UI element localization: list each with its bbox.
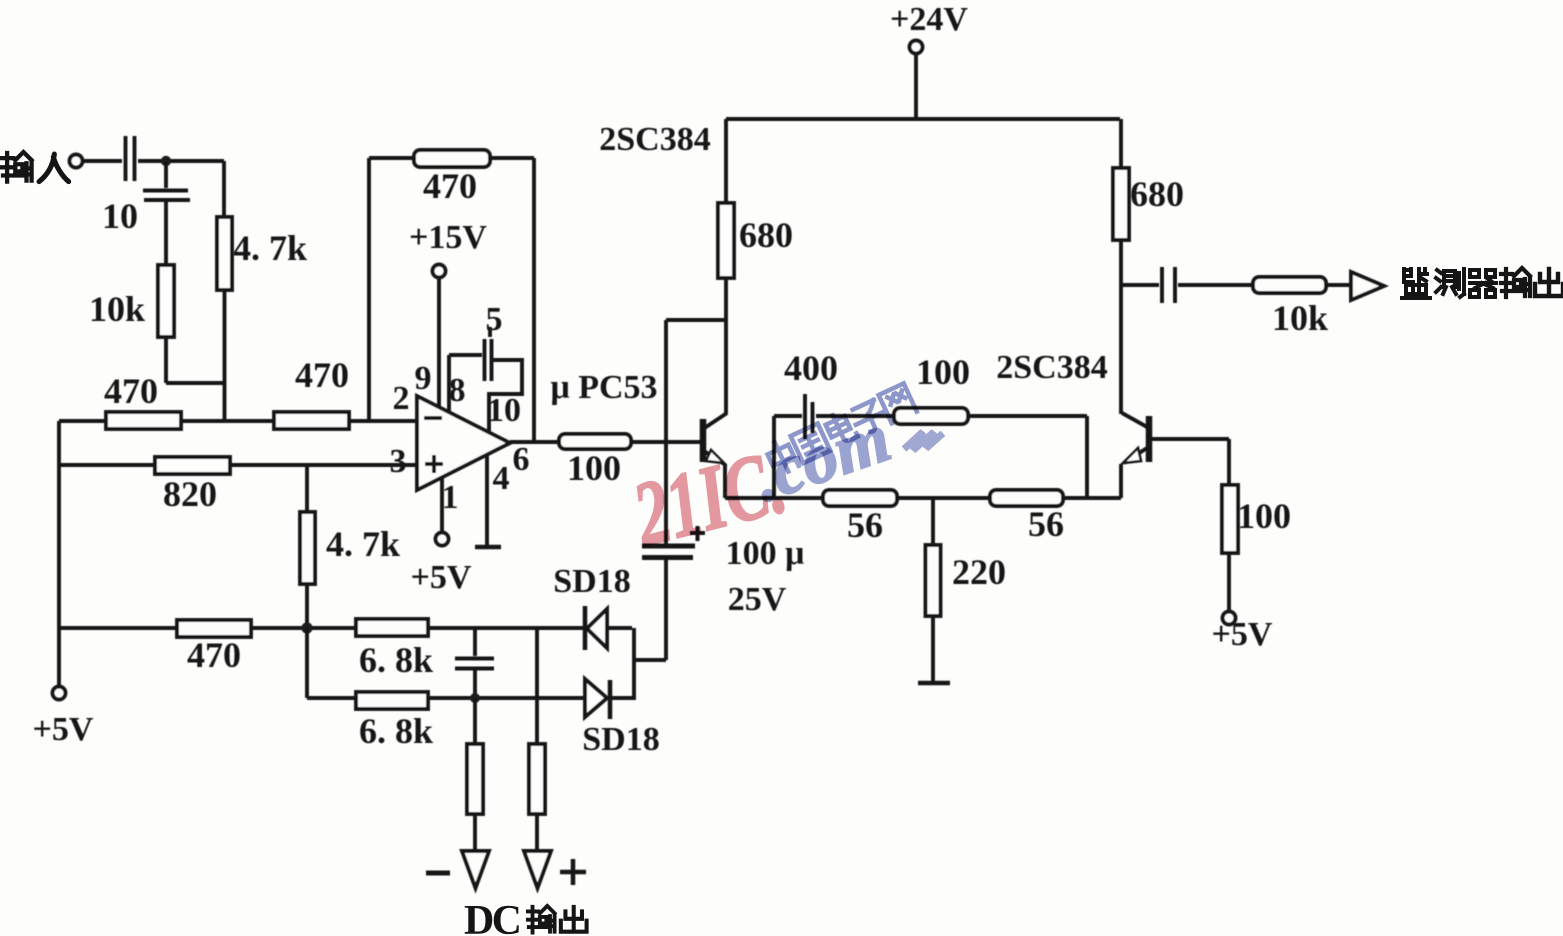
pin 10 wire [489, 360, 522, 431]
bias upper wire [774, 416, 802, 498]
svg-text:6. 8k: 6. 8k [359, 640, 433, 680]
svg-text:4: 4 [493, 460, 510, 497]
wire upper diode to node [607, 626, 632, 630]
wire cap to 10k [1178, 283, 1253, 287]
wire +24V stem [914, 54, 918, 119]
resistor 470 (feedback, top) [369, 156, 534, 160]
svg-text:10: 10 [487, 392, 521, 429]
svg-text:25V: 25V [728, 581, 787, 618]
wire 10k to arrow [1326, 283, 1351, 287]
svg-text:400: 400 [784, 348, 838, 388]
transistor Q1 2SC384 base bar [700, 419, 707, 462]
wire 100u to diode node [634, 560, 666, 700]
resistor 10k (output) [1253, 277, 1326, 293]
wire inverting bus (pin 2 line) [59, 419, 417, 423]
Q2 collector wire up [1119, 240, 1123, 414]
resistor 56 (left) [823, 490, 897, 506]
svg-text:2SC384: 2SC384 [599, 121, 710, 158]
wire node A down to capacitor 10 [164, 161, 168, 188]
wire pin3 bus down to 4.7k #2 [305, 465, 309, 512]
diode SD18 upper triangle [587, 609, 607, 648]
Q1 emitter arrowhead [706, 450, 724, 463]
svg-text:100: 100 [567, 448, 621, 488]
+24V terminal [910, 41, 923, 54]
wire non-inverting bus (pin 3 line) [59, 463, 417, 467]
diode SD18 lower (cathode bar) [608, 680, 613, 719]
watermark 中国电子网 blue [764, 382, 917, 476]
pin 1 wire [440, 477, 444, 532]
resistor 100 (op-amp output) [559, 434, 631, 449]
svg-text:2SC384: 2SC384 [996, 349, 1107, 386]
svg-text:μ PC53: μ PC53 [550, 369, 657, 406]
lower reference wire [307, 696, 585, 700]
wire DC+ branch (from top wire crossing) [535, 628, 539, 744]
feedback loop: right drop wire to output [532, 158, 536, 442]
svg-text:10: 10 [102, 196, 138, 236]
wire lower diode to node [612, 696, 634, 700]
svg-text:+24V: +24V [890, 1, 968, 38]
svg-text:820: 820 [163, 474, 217, 514]
svg-text:DC: DC [464, 898, 522, 936]
svg-text:680: 680 [1130, 174, 1184, 214]
Q1 emitter wire down [725, 464, 774, 498]
wire +15V to op-amp top (pin 9) [437, 278, 441, 406]
capacitor 400 [805, 394, 813, 439]
+5V terminal pin1 [436, 533, 449, 546]
+5V terminal bottom left [53, 687, 66, 700]
resistor 470 (bottom) [177, 620, 251, 637]
op-amp U1 uPC53 triangle [417, 396, 510, 490]
label 输入 input [2, 152, 69, 182]
plus sign of 100u [690, 526, 705, 541]
capacitor C-in (series input cap) [126, 136, 135, 181]
bias lower wire [725, 496, 1121, 500]
pin 4 wire [485, 455, 489, 546]
wire 100 to Q1 base [631, 440, 701, 444]
wire input to C-in [83, 159, 122, 163]
wire cap 10 to resistor 10k [164, 202, 168, 265]
resistor 10k [158, 265, 174, 337]
svg-text:2: 2 [393, 380, 410, 417]
wire 400 to 100 [816, 414, 894, 418]
junction dot lower wire [470, 693, 480, 703]
Q2 emitter arrowhead [1123, 448, 1141, 463]
svg-text:4. 7k: 4. 7k [326, 524, 400, 564]
resistor 4.7k (input divider) [217, 217, 232, 290]
svg-text:+5V: +5V [411, 559, 472, 596]
svg-text:+15V: +15V [409, 219, 487, 256]
wire DC- branch [473, 698, 477, 744]
svg-text:8: 8 [449, 372, 466, 409]
svg-text:SD18: SD18 [582, 721, 659, 758]
wire 4.7k #2 to node B [305, 584, 309, 628]
svg-text:SD18: SD18 [553, 563, 630, 600]
wire op-amp output [510, 440, 559, 444]
wire resistor to arrow [535, 814, 539, 851]
Q2 base wire [1152, 439, 1229, 485]
+15V terminal [433, 265, 446, 278]
ground 220 [918, 681, 950, 686]
capacitor C5 (pins 8-10) [485, 339, 492, 381]
svg-text:470: 470 [295, 355, 349, 395]
ground pin 4 [475, 545, 501, 550]
arrow DC- [462, 851, 489, 888]
watermark 21IC. red [624, 431, 795, 566]
resistor 820 [155, 457, 230, 474]
bottom reference wire [59, 626, 583, 630]
svg-text:100: 100 [916, 352, 970, 392]
collector tap to coupling cap [666, 320, 726, 544]
svg-text:6: 6 [513, 441, 530, 478]
capacitor 100u 25V electrolytic [642, 544, 695, 549]
+5V terminal right [1223, 612, 1236, 625]
svg-text:6. 8k: 6. 8k [359, 711, 433, 751]
resistor 100 (Q2 base) [1222, 485, 1238, 553]
input terminal 输入 [70, 155, 83, 168]
svg-text:56: 56 [847, 505, 883, 545]
svg-text:+5V: +5V [1212, 616, 1273, 653]
+24V rail [726, 117, 1120, 121]
node A junction dot [161, 156, 171, 166]
resistor 680 (Q2 collector) [1113, 168, 1129, 240]
transistor Q2 2SC384 base bar [1146, 416, 1153, 462]
arrow monitor output [1351, 272, 1384, 300]
feedback loop: left drop wire [367, 158, 371, 421]
resistor 4.7k (to reference node) [300, 512, 315, 584]
Q2 collector lead [1122, 413, 1147, 427]
label 监测器输出 monitor output [1402, 268, 1563, 298]
pin 8 wire [449, 355, 482, 412]
output node wire [1120, 283, 1159, 287]
diode SD18 lower triangle [585, 679, 607, 717]
arrow DC+ [524, 851, 551, 888]
svg-text:470: 470 [104, 371, 158, 411]
capacitor 10 [143, 191, 190, 201]
wire node A right then down to 4.7k [222, 161, 226, 217]
resistor 470 (left on pin2 bus) [106, 412, 181, 429]
svg-text:470: 470 [423, 166, 477, 206]
Q1 collector wire up [724, 278, 728, 414]
svg-text:100: 100 [1237, 496, 1291, 536]
svg-text:56: 56 [1028, 504, 1064, 544]
watermark .com blue [744, 399, 944, 517]
wire resistor to arrow [473, 814, 477, 851]
Q1 emitter lead [704, 451, 724, 464]
resistor 6.8k (bottom) [356, 692, 428, 709]
resistor 470 (right on pin2 bus) [274, 412, 349, 429]
pin 5 stub [488, 327, 492, 337]
wire 220 branch [931, 498, 935, 545]
op-amp plus sign [425, 455, 443, 473]
resistor 6.8k (top) [356, 619, 428, 636]
resistor 56 (right) [990, 490, 1063, 506]
wire 100 to +5V [1227, 553, 1231, 611]
node B junction dot [301, 622, 312, 633]
op-amp minus sign [424, 416, 442, 420]
Q2 emitter lead [1124, 448, 1147, 463]
wire 680 top to +24V rail [1119, 119, 1123, 168]
svg-text:470: 470 [187, 635, 241, 675]
svg-text:5: 5 [486, 301, 503, 338]
Q2 emitter wire down [1119, 464, 1123, 498]
svg-text:10k: 10k [1272, 298, 1328, 338]
resistor DC- [467, 744, 483, 814]
wire 220 to ground [931, 616, 935, 682]
left supply bus [57, 421, 61, 686]
minus sign DC output [426, 871, 450, 876]
capacitor between 6.8k wires [455, 628, 494, 698]
svg-text:1: 1 [442, 479, 459, 516]
wire node B down [305, 628, 309, 698]
wire 4.7k to main wire [223, 290, 227, 421]
plus sign DC output [560, 859, 586, 885]
wire C-in to node A [138, 159, 224, 163]
svg-text:9: 9 [415, 360, 432, 397]
wire 680 to +24V rail [724, 119, 728, 203]
resistor 100 (bias) [894, 408, 968, 424]
resistor DC+ [529, 744, 545, 814]
diode SD18 upper (cathode bar) [583, 606, 588, 650]
svg-text:4. 7k: 4. 7k [233, 228, 307, 268]
wire 10k bottom jog to 4.7k branch [166, 337, 224, 383]
svg-text:+5V: +5V [33, 711, 94, 748]
svg-text:3: 3 [390, 443, 407, 480]
resistor 680 (Q1 collector) [718, 203, 734, 278]
capacitor output coupling [1162, 267, 1175, 303]
Q1 collector lead [703, 413, 727, 429]
resistor 220 [926, 545, 941, 616]
wire 100 to corner [968, 416, 1087, 498]
svg-text:10k: 10k [89, 289, 145, 329]
svg-text:220: 220 [952, 552, 1006, 592]
svg-text:680: 680 [739, 215, 793, 255]
